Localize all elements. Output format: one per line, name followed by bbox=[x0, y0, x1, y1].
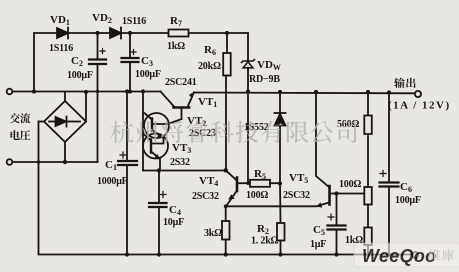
svg-text:1000μF: 1000μF bbox=[97, 176, 128, 187]
capacitor C4 10uF column bbox=[149, 171, 167, 255]
svg-text:RD−9B: RD−9B bbox=[249, 74, 280, 85]
wire: AC terminal 2 horizontal bbox=[12, 161, 97, 163]
wire: VT5 base to divider bbox=[337, 193, 365, 195]
svg-text:1S116: 1S116 bbox=[122, 16, 146, 27]
transistor VT4 2SC32 bbox=[226, 170, 250, 205]
wire: zener drop x=248 bbox=[247, 33, 249, 61]
bridge rectifier diamond bbox=[39, 92, 87, 162]
wire: main rail left part y=91.5 bbox=[12, 91, 160, 93]
Darlington collector column x=143 + emitter bus y=170.5 bbox=[143, 92, 226, 171]
svg-text:1S116: 1S116 bbox=[49, 43, 73, 54]
svg-text:1. 2kΩ: 1. 2kΩ bbox=[251, 236, 279, 247]
wire: bottom ground rail bbox=[39, 122, 414, 255]
bridge internal diode bbox=[49, 121, 56, 123]
svg-text:2SC241: 2SC241 bbox=[165, 77, 197, 88]
zener diode VDw RD-9B bbox=[242, 60, 255, 184]
label AC voltage bbox=[10, 113, 31, 140]
diode VD2 bbox=[110, 28, 121, 39]
capacitor C6 100uF column x=389 bbox=[380, 93, 399, 255]
wire: top boost rail y=33 bbox=[34, 33, 248, 92]
svg-text:1kΩ: 1kΩ bbox=[167, 41, 185, 52]
svg-text:2SC32: 2SC32 bbox=[283, 190, 310, 201]
resistor R5 100ohm horizontal bbox=[250, 180, 280, 187]
svg-text:(1A / 12V): (1A / 12V) bbox=[388, 100, 451, 112]
svg-text:WeeQoo: WeeQoo bbox=[362, 246, 436, 266]
capacitor C5 1uF column x=336.5 bbox=[328, 194, 346, 255]
capacitor C2 (column + plates) bbox=[89, 33, 106, 162]
resistor 560ohm + 100ohm + 1k column x=368 bbox=[364, 92, 372, 255]
transistor VT2 (circle) bbox=[144, 113, 182, 139]
diode 1S552 column x=280 bbox=[275, 92, 286, 184]
resistor R7 (1k) horizontal box bbox=[169, 30, 189, 37]
emitter bus y=206.3 + 3k resistor column bbox=[222, 206, 316, 255]
svg-text:100μF: 100μF bbox=[135, 69, 161, 80]
diode VD1 bbox=[57, 28, 68, 39]
watermark: WeeQoo box bbox=[354, 243, 459, 267]
resistor R6 (20k) vertical box + column bbox=[223, 33, 231, 171]
transistor VT1 2SC241 bbox=[161, 92, 195, 120]
svg-text:100Ω: 100Ω bbox=[246, 190, 268, 201]
capacitor C1 1000uF column bbox=[118, 92, 137, 255]
input terminal 1 bbox=[7, 89, 13, 95]
svg-text:10μF: 10μF bbox=[163, 217, 184, 228]
svg-text:20kΩ: 20kΩ bbox=[198, 61, 221, 72]
svg-text:100μF: 100μF bbox=[67, 70, 93, 81]
svg-text:2S32: 2S32 bbox=[170, 157, 190, 168]
transistor VT5 2SC32 bbox=[316, 92, 337, 208]
capacitor C3 (column + plates) bbox=[122, 33, 139, 92]
svg-text:3kΩ: 3kΩ bbox=[204, 228, 222, 239]
svg-text:1μF: 1μF bbox=[310, 239, 326, 250]
watermark: company name bbox=[111, 121, 357, 144]
svg-text:560Ω: 560Ω bbox=[337, 119, 359, 130]
output terminal bbox=[415, 91, 421, 97]
transistor VT3 (circle) bbox=[143, 134, 168, 171]
svg-text:100Ω: 100Ω bbox=[339, 179, 361, 190]
svg-text:2SC32: 2SC32 bbox=[192, 191, 219, 202]
label output bbox=[394, 78, 415, 88]
resistor R2 1.2k column x=280.5 bbox=[277, 184, 285, 255]
input terminal 2 bbox=[7, 159, 13, 165]
ground-rail right terminal bbox=[413, 252, 419, 258]
svg-text:100μF: 100μF bbox=[395, 195, 421, 206]
wire: main rail right part y=92 bbox=[194, 92, 415, 95]
